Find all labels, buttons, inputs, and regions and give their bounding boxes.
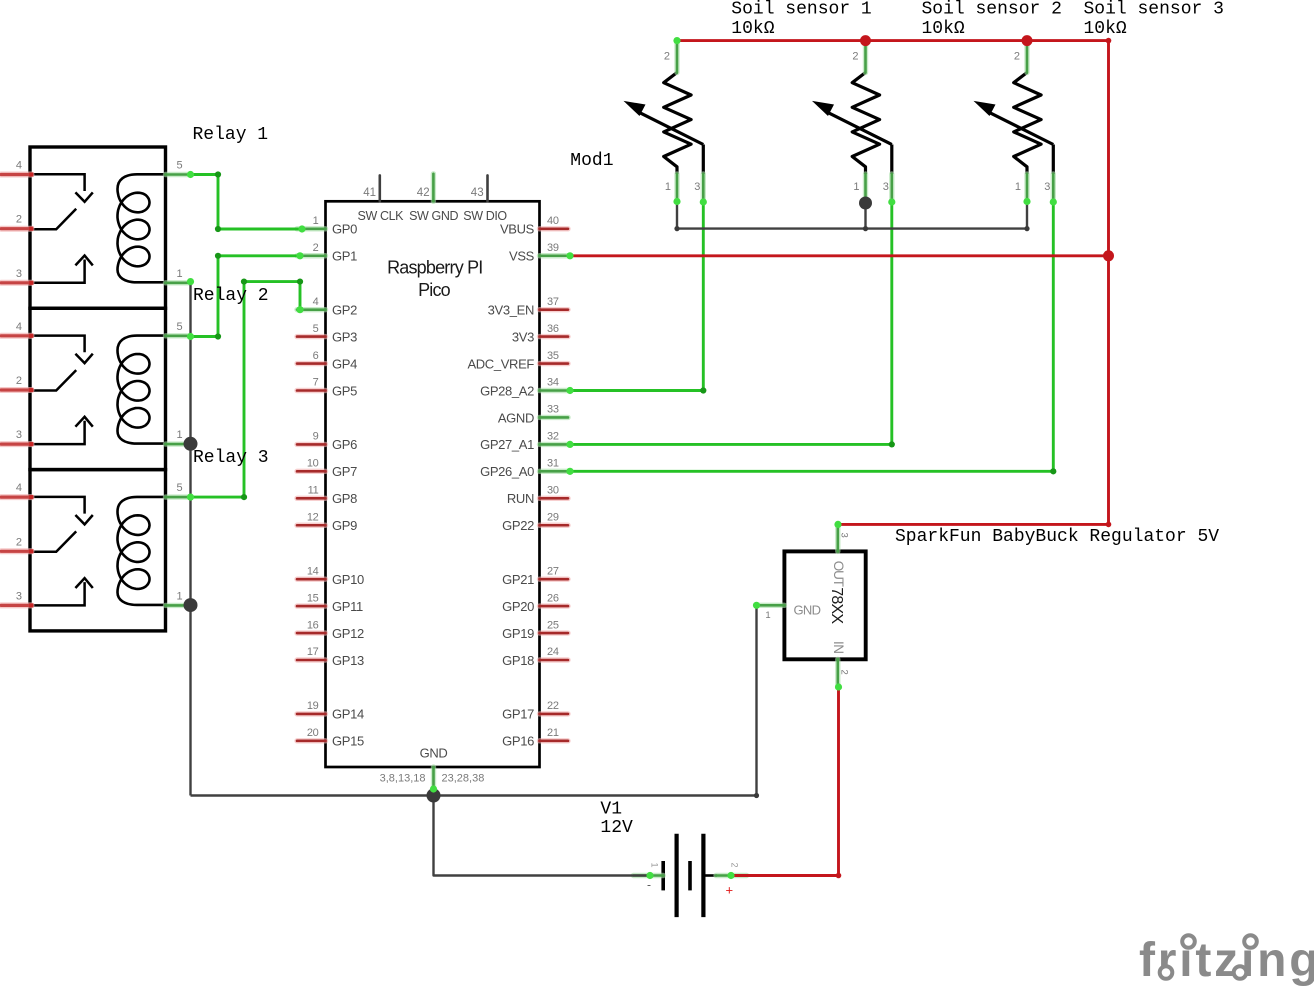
relay K1 pin 1 xyxy=(166,280,191,285)
wire pico GND to bus xyxy=(432,789,434,796)
Pico pin 27 GP21 xyxy=(540,576,569,581)
Pico pin 37 3V3_EN xyxy=(540,307,569,312)
svg-text:5: 5 xyxy=(177,321,183,333)
svg-text:1: 1 xyxy=(853,181,859,193)
svg-text:1: 1 xyxy=(665,181,671,193)
svg-text:-: - xyxy=(647,878,651,892)
voltage regulator U2 78XX body xyxy=(784,551,865,659)
Pico pin 32 GP27_A1 xyxy=(540,442,569,447)
potentiometer R3 pin 3 xyxy=(1051,174,1056,202)
relay K1 pin 3 xyxy=(1,280,32,286)
svg-text:3: 3 xyxy=(1044,181,1050,193)
Pico pin 31 GP26_A0 xyxy=(540,469,569,474)
svg-text:GP22: GP22 xyxy=(502,518,534,533)
svg-text:9: 9 xyxy=(313,431,319,443)
svg-text:4: 4 xyxy=(16,321,22,333)
svg-text:GP13: GP13 xyxy=(332,653,364,668)
potentiometer R2 (Soil sensor 2) body xyxy=(852,73,879,175)
svg-text:3: 3 xyxy=(839,533,850,538)
svg-text:GP0: GP0 xyxy=(332,222,357,237)
wire bend dots green xyxy=(215,171,221,177)
svg-text:2: 2 xyxy=(852,51,858,63)
wire sensor1 pin1 down xyxy=(676,202,678,229)
svg-text:GP8: GP8 xyxy=(332,491,357,506)
Pico pin 1 GP0 xyxy=(297,226,326,231)
wire sensor2 pin1 down xyxy=(864,203,866,229)
svg-text:3V3: 3V3 xyxy=(512,329,534,344)
relay K2 pin connection dots xyxy=(29,334,33,338)
svg-text:Pico: Pico xyxy=(418,280,451,300)
wire 5V bus: sensor pin2s to regulator OUT xyxy=(677,41,1109,525)
svg-text:GP2: GP2 xyxy=(332,302,357,317)
relay K2 pin 5 xyxy=(166,333,191,338)
svg-text:1: 1 xyxy=(177,268,183,280)
relay K2 pin 4 xyxy=(1,333,32,339)
potentiometer R3 (Soil sensor 3) body xyxy=(1014,73,1041,175)
wire relay pin1 chain (down) xyxy=(189,282,191,796)
svg-text:12V: 12V xyxy=(600,818,633,838)
svg-text:29: 29 xyxy=(547,511,559,523)
Pico pin 17 GP13 xyxy=(297,657,326,662)
svg-text:34: 34 xyxy=(547,377,559,389)
potentiometer R2 pin 3 xyxy=(889,174,894,202)
wire GP27_A1 to sensor2 pin3 xyxy=(570,202,892,444)
relay K3 pin 2 xyxy=(1,548,32,554)
svg-text:1: 1 xyxy=(177,590,183,602)
svg-text:GP12: GP12 xyxy=(332,626,364,641)
Pico pin 5 GP3 xyxy=(297,334,326,339)
svg-text:6: 6 xyxy=(313,350,319,362)
relay K2 coil xyxy=(118,336,165,444)
wire battery plus to regulator IN xyxy=(731,687,839,876)
relay K3 pin 4 xyxy=(1,494,32,500)
svg-text:1: 1 xyxy=(313,215,319,227)
wire ground bus to battery minus xyxy=(434,796,651,876)
Pico pin 15 GP11 xyxy=(297,603,326,608)
svg-text:2: 2 xyxy=(839,670,850,675)
relay K3 pin 1 xyxy=(166,603,191,608)
svg-text:40: 40 xyxy=(547,215,559,227)
Pico pin GND (bottom) xyxy=(431,767,436,790)
svg-text:3: 3 xyxy=(883,181,889,193)
Pico pin 24 GP18 xyxy=(540,657,569,662)
svg-text:Relay 3: Relay 3 xyxy=(193,448,269,468)
svg-text:GP27_A1: GP27_A1 xyxy=(480,437,534,452)
svg-text:GP9: GP9 xyxy=(332,518,357,533)
svg-text:2: 2 xyxy=(16,214,22,226)
svg-text:35: 35 xyxy=(547,350,559,362)
Pico pin 22 GP17 xyxy=(540,711,569,716)
svg-text:43: 43 xyxy=(471,187,484,199)
Pico pin 39 VSS xyxy=(540,253,569,258)
svg-text:1: 1 xyxy=(765,610,770,621)
svg-text:12: 12 xyxy=(307,511,319,523)
Pico pin 25 GP19 xyxy=(540,630,569,635)
svg-text:20: 20 xyxy=(307,727,319,739)
svg-text:3: 3 xyxy=(694,181,700,193)
svg-text:41: 41 xyxy=(363,187,376,199)
svg-text:4: 4 xyxy=(313,296,319,308)
Pico pin 26 GP20 xyxy=(540,603,569,608)
relay K1 pin 4 xyxy=(1,172,32,178)
svg-text:GP1: GP1 xyxy=(332,249,357,264)
svg-text:1: 1 xyxy=(1015,181,1021,193)
Pico pin 30 RUN xyxy=(540,496,569,501)
svg-text:ADC_VREF: ADC_VREF xyxy=(467,356,534,371)
potentiometer R2 pin 1 xyxy=(863,174,868,202)
svg-text:GP21: GP21 xyxy=(502,572,534,587)
wire GP26_A0 to sensor3 pin3 xyxy=(570,202,1053,471)
svg-text:25: 25 xyxy=(547,619,559,631)
svg-text:2: 2 xyxy=(16,375,22,387)
svg-text:SW DIO: SW DIO xyxy=(463,209,507,223)
svg-text:GP10: GP10 xyxy=(332,572,364,587)
svg-text:GND: GND xyxy=(794,603,821,618)
svg-text:23,28,38: 23,28,38 xyxy=(442,773,485,785)
svg-text:SW GND: SW GND xyxy=(409,209,458,223)
svg-text:Soil sensor 1: Soil sensor 1 xyxy=(731,0,871,20)
relay K2 ("Relay 2") body xyxy=(30,308,166,469)
relay K1 pin 2 xyxy=(1,226,32,232)
svg-text:33: 33 xyxy=(547,404,559,416)
Pico pin 34 GP28_A2 xyxy=(540,388,569,393)
svg-text:VBUS: VBUS xyxy=(500,222,535,237)
svg-text:Raspberry PI: Raspberry PI xyxy=(387,257,482,277)
relay K1 pin connection dots xyxy=(29,172,33,176)
Pico pin 6 GP4 xyxy=(297,361,326,366)
svg-text:3: 3 xyxy=(16,590,22,602)
potentiometer R2 pin 2 xyxy=(863,41,868,73)
svg-text:17: 17 xyxy=(307,646,319,658)
svg-text:GP19: GP19 xyxy=(502,626,534,641)
wire VSS to 5V vertical xyxy=(570,254,1109,257)
fritzing logo rings xyxy=(1160,966,1173,979)
potentiometer R1 pin3 riser xyxy=(702,145,705,175)
svg-text:GP26_A0: GP26_A0 xyxy=(480,464,534,479)
Pico pin 14 GP10 xyxy=(297,576,326,581)
wire end dots green xyxy=(187,171,194,178)
battery V1 right connector xyxy=(703,874,717,877)
potentiometer R3 pin 1 xyxy=(1024,174,1029,202)
wire sensor3 pin1 down xyxy=(1026,202,1028,229)
svg-text:14: 14 xyxy=(307,565,319,577)
svg-text:3V3_EN: 3V3_EN xyxy=(488,302,534,317)
Pico pin 35 ADC_VREF xyxy=(540,361,569,366)
svg-text:31: 31 xyxy=(547,458,559,470)
svg-text:10kΩ: 10kΩ xyxy=(1084,19,1127,39)
svg-text:7: 7 xyxy=(313,377,319,389)
svg-text:GP16: GP16 xyxy=(502,734,534,749)
svg-text:2: 2 xyxy=(730,863,740,868)
potentiometer R2 pin3 riser xyxy=(890,145,893,175)
Pico pin 2 GP1 xyxy=(297,253,326,258)
potentiometer R2 wiper arrow xyxy=(829,113,892,145)
wire GP28_A2 to sensor1 pin3 xyxy=(570,202,703,391)
wire sensor ground bus xyxy=(677,227,1027,229)
relay K3 pin connection dots xyxy=(29,495,33,499)
Pico pin 4 GP2 xyxy=(297,307,326,312)
svg-text:GND: GND xyxy=(420,746,448,761)
svg-text:32: 32 xyxy=(547,431,559,443)
svg-text:5: 5 xyxy=(177,482,183,494)
svg-text:SW CLK: SW CLK xyxy=(358,209,405,223)
Pico pin 40 VBUS xyxy=(540,226,569,231)
svg-text:3,8,13,18: 3,8,13,18 xyxy=(380,773,426,785)
svg-text:Relay 2: Relay 2 xyxy=(193,286,269,306)
relay K3 pin 3 xyxy=(1,602,32,608)
Pico pin 36 3V3 xyxy=(540,334,569,339)
Pico pin 10 GP7 xyxy=(297,469,326,474)
svg-text:1: 1 xyxy=(650,863,660,868)
svg-text:V1: V1 xyxy=(600,799,622,819)
svg-text:11: 11 xyxy=(308,485,319,497)
relay K1 coil xyxy=(118,174,165,282)
svg-text:10kΩ: 10kΩ xyxy=(922,19,965,39)
battery V1 plates xyxy=(661,861,665,890)
svg-text:Mod1: Mod1 xyxy=(570,151,613,171)
junction dots dark xyxy=(184,437,198,451)
svg-text:Soil sensor 2: Soil sensor 2 xyxy=(922,0,1062,20)
svg-text:5: 5 xyxy=(177,160,183,172)
svg-text:GP3: GP3 xyxy=(332,329,357,344)
Pico pin 20 GP15 xyxy=(297,738,326,743)
svg-text:3: 3 xyxy=(16,268,22,280)
svg-text:GP18: GP18 xyxy=(502,653,534,668)
Pico pin 19 GP14 xyxy=(297,711,326,716)
svg-text:OUT: OUT xyxy=(831,561,846,587)
svg-text:36: 36 xyxy=(547,323,559,335)
relay K3 coil xyxy=(118,497,165,605)
svg-text:27: 27 xyxy=(547,565,559,577)
potentiometer R1 pin 1 xyxy=(674,174,679,202)
regulator U2 pin 1 GND xyxy=(757,603,785,608)
potentiometer R1 pin 2 xyxy=(674,41,679,73)
svg-text:24: 24 xyxy=(547,646,559,658)
svg-text:+: + xyxy=(726,883,734,898)
potentiometer R1 wiper arrow xyxy=(640,113,703,145)
Pico pin 29 GP22 xyxy=(540,523,569,528)
svg-text:GP15: GP15 xyxy=(332,734,364,749)
junction dots red xyxy=(860,35,871,46)
wire regulator GND down to bus xyxy=(755,605,757,795)
svg-text:2: 2 xyxy=(664,51,670,63)
svg-text:GP14: GP14 xyxy=(332,707,364,722)
svg-text:22: 22 xyxy=(547,700,559,712)
wire ground bus horizontal xyxy=(191,794,757,796)
relay K2 pin 2 xyxy=(1,387,32,393)
svg-text:2: 2 xyxy=(16,536,22,548)
svg-text:30: 30 xyxy=(547,485,559,497)
Pico pin 16 GP12 xyxy=(297,630,326,635)
svg-text:2: 2 xyxy=(313,242,319,254)
svg-text:78XX: 78XX xyxy=(828,587,845,624)
svg-text:2: 2 xyxy=(1014,51,1020,63)
potentiometer R1 pin 3 xyxy=(701,174,706,202)
svg-text:4: 4 xyxy=(16,160,22,172)
svg-text:5: 5 xyxy=(313,323,319,335)
svg-text:VSS: VSS xyxy=(509,249,535,264)
Pico pin 43 SWDIO xyxy=(486,175,489,201)
svg-text:1: 1 xyxy=(177,429,183,441)
Pico pin 9 GP6 xyxy=(297,442,326,447)
svg-text:37: 37 xyxy=(547,296,559,308)
relay K1 ("Relay 1") body xyxy=(30,147,166,308)
Pico pin 42 SWGND xyxy=(431,174,436,202)
svg-text:RUN: RUN xyxy=(507,491,534,506)
svg-text:21: 21 xyxy=(547,727,559,739)
relay K3 ("Relay 3") body xyxy=(30,470,166,631)
regulator U2 pin 2 IN xyxy=(835,659,840,686)
wire relay3 pin5 to GP2 xyxy=(191,282,303,498)
svg-text:GP6: GP6 xyxy=(332,437,357,452)
potentiometer R3 pin3 riser xyxy=(1052,145,1055,175)
relay K3 pin 5 xyxy=(166,494,191,499)
svg-text:4: 4 xyxy=(16,482,22,494)
Pico pin 11 GP8 xyxy=(297,496,326,501)
Pico pin 12 GP9 xyxy=(297,523,326,528)
svg-text:SparkFun BabyBuck Regulator 5V: SparkFun BabyBuck Regulator 5V xyxy=(895,527,1219,547)
relay K2 pin 3 xyxy=(1,441,32,447)
svg-text:GP4: GP4 xyxy=(332,356,357,371)
wire relay1 pin5 to GP0 xyxy=(191,175,303,230)
svg-text:GP5: GP5 xyxy=(332,383,357,398)
battery V1 pin 2 (plus) xyxy=(716,873,747,878)
svg-text:GP7: GP7 xyxy=(332,464,357,479)
svg-text:GP17: GP17 xyxy=(502,707,534,722)
svg-text:42: 42 xyxy=(417,187,430,199)
svg-text:15: 15 xyxy=(307,592,319,604)
svg-text:GP28_A2: GP28_A2 xyxy=(480,383,534,398)
svg-text:Relay 1: Relay 1 xyxy=(193,125,269,145)
svg-text:GP20: GP20 xyxy=(502,599,534,614)
fritzing logo xyxy=(1139,934,1314,987)
wire relay2 pin5 to GP1 xyxy=(191,256,301,337)
svg-text:AGND: AGND xyxy=(498,410,534,425)
svg-text:39: 39 xyxy=(547,242,559,254)
Raspberry Pi Pico U1 body xyxy=(326,201,540,767)
regulator U2 pin 3 OUT xyxy=(835,524,840,551)
svg-text:10kΩ: 10kΩ xyxy=(731,19,774,39)
Pico pin 7 GP5 xyxy=(297,388,326,393)
potentiometer R3 wiper arrow xyxy=(990,113,1053,145)
Pico pin 41 SWCLK xyxy=(378,175,381,201)
svg-text:19: 19 xyxy=(307,700,319,712)
relay K1 pin 5 xyxy=(166,172,191,177)
potentiometer R3 pin 2 xyxy=(1024,41,1029,73)
svg-text:GP11: GP11 xyxy=(332,599,363,614)
Pico pin 21 GP16 xyxy=(540,738,569,743)
svg-text:26: 26 xyxy=(547,592,559,604)
svg-text:16: 16 xyxy=(307,619,319,631)
battery V1 pin 1 (minus) xyxy=(633,873,663,878)
Pico pin 33 AGND xyxy=(540,415,569,420)
svg-text:Soil sensor 3: Soil sensor 3 xyxy=(1084,0,1224,20)
svg-text:IN: IN xyxy=(831,641,846,654)
svg-text:10: 10 xyxy=(307,458,319,470)
svg-text:3: 3 xyxy=(16,429,22,441)
potentiometer R1 (Soil sensor 1) body xyxy=(664,73,691,175)
relay K2 pin 1 xyxy=(166,441,191,446)
